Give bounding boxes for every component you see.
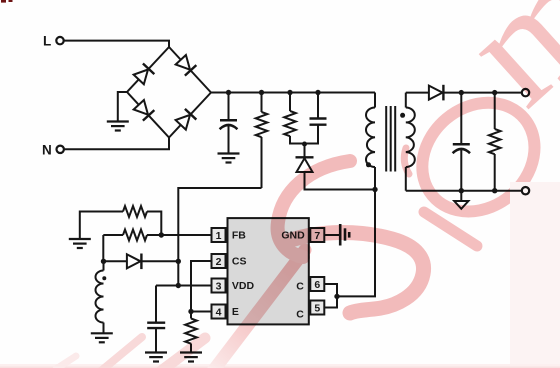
terminal OUT-: [522, 187, 529, 194]
IC U1 pin 5 (C): [296, 301, 324, 321]
IC U1 body: [228, 218, 309, 324]
IC U1 pin 3 (VDD): [212, 279, 255, 293]
bridge diode D2 (upper right arm): [169, 47, 211, 93]
bridge diode D1 (upper left arm): [127, 47, 169, 92]
capacitor C2 (snubber): [310, 93, 327, 144]
transformer T1 core: [386, 106, 395, 172]
wire pin 6 to switch node: [324, 284, 337, 296]
IC U1 pin 7 (GND): [281, 228, 324, 242]
wire R1 to VDD node: [178, 188, 261, 286]
node out-cap bottom: [459, 188, 464, 193]
capacitor C3 (output, polarized): [453, 93, 470, 191]
resistor R6 (current sense): [185, 312, 197, 353]
ground (output, open triangle): [454, 191, 468, 209]
wire snubber bar: [289, 143, 319, 145]
terminal OUT+: [522, 89, 529, 96]
terminal N: [42, 142, 64, 157]
transformer T1 secondary winding: [406, 93, 415, 191]
inductor L1 phase dot: [102, 276, 106, 280]
node CS-E: [188, 309, 193, 314]
capacitor C1 (bulk, polarized): [220, 93, 238, 154]
wire N to bridge: [64, 138, 169, 150]
ground (C4): [145, 353, 167, 362]
diode D7 (aux rectifier): [104, 253, 179, 269]
node VDD: [176, 283, 181, 288]
node rail-R1: [259, 90, 264, 95]
wire pin 5 to switch node: [324, 296, 337, 307]
terminal L: [43, 34, 64, 49]
diode D6 (output rectifier): [429, 85, 444, 101]
wire pin 2 (CS) to sense node: [191, 261, 212, 312]
wire clamp to switch node: [305, 172, 376, 190]
wire FB to pin 1: [161, 234, 211, 236]
node out-res bottom: [492, 188, 497, 193]
ground (L1): [91, 333, 113, 342]
bridge diode D3 (lower left arm): [127, 92, 169, 138]
IC U1 pin 6 (C): [296, 277, 324, 292]
wire VDD rail: [156, 285, 212, 287]
node pins 5-6: [334, 294, 339, 299]
wire L to bridge: [64, 41, 169, 47]
resistor R5 (FB lower): [103, 230, 161, 241]
diode D5 (snubber clamp): [296, 144, 314, 173]
node rail-C2: [315, 90, 320, 95]
resistor R4 (FB upper): [80, 206, 162, 239]
ground (R4): [69, 239, 91, 248]
node D7 to VDD: [176, 259, 181, 264]
inductor L1 (aux winding): [96, 261, 104, 333]
transformer T1 primary winding: [366, 93, 375, 190]
wire pin 4 (E) to sense node: [191, 311, 212, 313]
ground (pin 7, signal): [324, 224, 349, 246]
ground (bridge): [107, 92, 129, 131]
wire switch node: [337, 190, 375, 297]
node out-res top: [492, 90, 497, 95]
IC U1 pin 2 (CS): [212, 254, 247, 268]
ground (R6): [180, 353, 202, 362]
node FB: [159, 232, 164, 237]
IC U1 pin 1 (FB): [212, 228, 247, 242]
node rail-R2: [287, 90, 292, 95]
transformer T1 primary phase dot: [366, 162, 371, 167]
node aux: [101, 259, 106, 264]
capacitor C4 (VDD): [147, 286, 165, 353]
wire R5 to aux node: [102, 235, 104, 261]
IC U1 pin 4 (E): [212, 305, 239, 319]
resistor R3 (output load): [489, 93, 501, 191]
node out-cap top: [459, 90, 464, 95]
node snubber-D5: [302, 142, 307, 147]
wire DC rail: [211, 92, 375, 94]
resistor R1 (startup): [256, 93, 268, 189]
bridge diode D4 (lower right arm): [169, 93, 211, 138]
node switch-clamp: [372, 187, 377, 192]
resistor R2 (snubber): [284, 93, 296, 144]
transformer T1 secondary phase dot: [400, 113, 405, 118]
wire output top rail: [406, 92, 522, 94]
wire output bottom rail: [406, 190, 522, 192]
ground (C1): [218, 154, 240, 163]
node rail-C1: [226, 90, 231, 95]
